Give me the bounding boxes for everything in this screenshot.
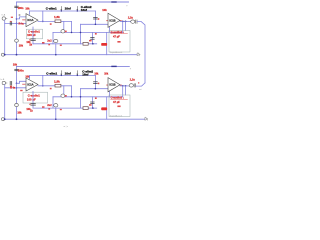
wire mid ground rail y54.7	[4, 54, 137, 56]
value red mark B	[89, 104, 92, 106]
red value blob	[101, 43, 107, 46]
value dot red	[10, 21, 12, 22]
wire drop x71.5 B	[71, 86, 73, 97]
svg-text:IC1B: IC1B	[109, 83, 115, 87]
svg-text:10nf: 10nf	[65, 7, 71, 11]
capacitor C-in plates	[9, 22, 11, 25]
svg-text:1,8k: 1,8k	[54, 15, 60, 19]
node o1 B	[122, 85, 124, 87]
resistor R-mid	[55, 20, 61, 23]
value red mark	[89, 40, 92, 42]
wire slim2 cap riser x95.4	[94, 11, 96, 24]
ground arrow mark	[137, 53, 140, 56]
svg-text:2u2: 2u2	[47, 104, 52, 107]
value mark red	[11, 17, 13, 18]
capacitor C-slim2 plates B	[94, 81, 98, 83]
wire connector ground drop B	[4, 85, 6, 120]
wire drop x55.8 to rail B	[55, 108, 57, 119]
pointer arrow C-slim2 B	[76, 71, 78, 75]
wire cap drop x33	[32, 27, 34, 44]
node bias2 B	[16, 87, 18, 89]
wire drop x63.8	[63, 21, 65, 32]
resistor ellipse on bias chain	[15, 39, 19, 42]
node bias2	[16, 23, 18, 25]
node out1	[42, 21, 44, 23]
wire connector ground drop x4.7	[4, 20, 6, 55]
node low92 B	[92, 107, 94, 109]
wire to output join B	[136, 83, 145, 86]
wire feedback mid y32.4	[53, 31, 123, 33]
wire cap drop x33 B	[32, 91, 34, 108]
wire top supply rail B	[17, 65, 130, 67]
svg-text:In B: In B	[1, 79, 5, 81]
box label C-audio2	[109, 31, 130, 53]
op-amp IC1A	[26, 14, 38, 27]
wire left drop x53 B	[52, 97, 54, 108]
wire slim2 cap riser x95.4 B	[94, 75, 96, 88]
node fb71	[71, 32, 73, 34]
red value blob B	[101, 107, 107, 110]
node arrow2	[77, 10, 78, 11]
resistor R-mid B	[55, 84, 61, 87]
wire input net y87.8	[5, 87, 26, 89]
svg-text:100n: 100n	[18, 68, 24, 72]
capacitor plates riser B	[91, 101, 95, 103]
pin mark	[19, 14, 21, 16]
wire left drop x53	[52, 32, 54, 43]
wire drop x125.5 B	[125, 86, 127, 95]
svg-text:10k: 10k	[17, 112, 22, 115]
wire lower net y42.3	[33, 43, 97, 45]
capacitor C-byp plates	[15, 5, 19, 7]
node arrow1	[61, 10, 62, 11]
svg-text:Kopie/Aussch.: Kopie/Aussch.	[110, 51, 123, 54]
value red tick0	[42, 42, 45, 44]
pin stub red out B	[120, 84, 122, 87]
node rail arrow2 B	[77, 75, 78, 76]
node out1 B	[42, 85, 44, 87]
wire mid ground rail y119.2	[4, 118, 145, 120]
capacitor C-byp plates B	[15, 68, 19, 70]
wire drop x122.7	[122, 21, 124, 32]
wire drop x106.7 to rail B	[106, 97, 108, 119]
wire riser x92.4 B	[91, 97, 93, 108]
value red dot B	[29, 104, 30, 105]
ground arrow mark B	[145, 118, 148, 121]
wire drop x125.5	[125, 21, 127, 30]
value red mark	[65, 31, 67, 33]
wire lower net y106.7	[33, 107, 97, 109]
svg-text:100 µF: 100 µF	[27, 98, 36, 102]
wire IC2B output	[120, 85, 129, 87]
value red tick	[50, 23, 52, 25]
pin stub red B	[22, 83, 25, 86]
wire IC2B input y88.7	[81, 88, 109, 90]
svg-text:C-audio2 ↓: C-audio2 ↓	[111, 96, 125, 100]
wire vertical bias x16.5 B	[16, 66, 18, 119]
value red mark B	[10, 86, 12, 87]
capacitor C-audio1 plates	[31, 38, 36, 40]
wire feedback top y75.4	[30, 74, 96, 76]
svg-text:C-audio2 ↓: C-audio2 ↓	[111, 30, 125, 34]
wire drop x122.7 B	[122, 86, 124, 97]
svg-text:47 µF: 47 µF	[113, 100, 120, 104]
capacitor ellipse on node	[61, 30, 65, 33]
svg-text:10k: 10k	[19, 45, 24, 48]
wire noninv jog	[17, 17, 27, 19]
wire drop x106.7 to rail	[106, 32, 108, 54]
svg-text:2,2u: 2,2u	[130, 78, 135, 81]
svg-text:C-slim1: C-slim1	[46, 71, 57, 75]
wire IC1A output y21.4	[38, 20, 72, 22]
pin stub red out	[120, 19, 122, 22]
node o1	[122, 21, 124, 23]
node gnd-55	[55, 54, 57, 56]
resistor ellipse bias B	[15, 103, 19, 106]
wire feedback stub B	[29, 75, 31, 78]
svg-text:IC1A: IC1A	[27, 82, 33, 86]
node rail arrow1 B	[61, 75, 62, 76]
value red tick2 B	[48, 108, 50, 109]
pointer arrow C-slim1	[60, 6, 62, 10]
red dot near fb B	[95, 97, 97, 99]
svg-text:10k: 10k	[13, 64, 18, 67]
svg-text:IC1A: IC1A	[27, 18, 33, 22]
node gnd-16	[16, 54, 18, 56]
capacitor C-in plates B	[9, 81, 11, 85]
pin stub red	[106, 19, 109, 22]
box label C-audio2 B	[109, 95, 130, 117]
wire to output drop	[138, 21, 146, 83]
svg-text:10k: 10k	[25, 8, 30, 11]
value red dot	[98, 18, 100, 20]
wire feedback stub	[29, 11, 31, 14]
node o2 B	[125, 85, 127, 87]
value red tick in B	[20, 90, 22, 91]
node fb80 B	[80, 96, 82, 98]
wire input net y23.4	[5, 22, 26, 24]
svg-text:16nf: 16nf	[81, 8, 87, 12]
connector IN-A	[2, 17, 5, 20]
wire riser minus x109.5 B	[109, 91, 111, 97]
svg-text:100 µF: 100 µF	[27, 33, 36, 37]
red dot near fb	[95, 33, 97, 35]
wire IC1B input y24.3	[81, 23, 109, 25]
value red tick0 B	[42, 106, 45, 108]
svg-text:10nf: 10nf	[65, 72, 71, 76]
capacitor C-out ellipse B	[129, 84, 133, 87]
node gnd-16 B	[16, 118, 18, 120]
wire top supply rail	[17, 1, 129, 3]
wire riser x80.5 B	[80, 89, 82, 108]
node bias1 B	[16, 83, 18, 85]
wire riser minus x109.5	[109, 26, 111, 32]
svg-text:C-slim1: C-slim1	[46, 7, 57, 11]
svg-text:1,8k: 1,8k	[54, 80, 60, 84]
wire drop x55.8 to rail	[55, 44, 57, 55]
wire riser x80.5	[80, 24, 82, 44]
value red tick2	[48, 44, 50, 45]
capacitor C-audio1 plates B	[31, 102, 36, 104]
svg-text:R-la: R-la	[19, 21, 25, 25]
wire IC2A output y85.8	[38, 85, 72, 87]
red small cap mark B	[117, 106, 120, 108]
wire vertical bias x16.5	[16, 2, 18, 55]
svg-text:IC1B: IC1B	[109, 18, 115, 22]
wire feedback drop x42.8	[42, 11, 44, 21]
capacitor ellipse lower	[54, 39, 58, 42]
node gnd-55 B	[55, 118, 57, 120]
capacitor C-out ellipse	[131, 20, 135, 23]
op-amp IC1B	[108, 13, 120, 27]
resistor R-low B	[83, 107, 88, 110]
capacitor plates on riser	[91, 37, 95, 39]
wire feedback mid y96.8	[53, 96, 123, 98]
node fb80	[80, 32, 82, 34]
resistor R-low	[83, 42, 88, 45]
box label C-audio1	[26, 29, 42, 39]
wire drop x63.8 B	[63, 86, 65, 97]
svg-text:10k: 10k	[102, 8, 107, 12]
value red mark B	[65, 95, 67, 97]
op-amp IC2A	[26, 78, 38, 91]
red small cap mark	[117, 41, 120, 43]
svg-text:47 µF: 47 µF	[113, 35, 120, 39]
pointer arrow C-slim2	[76, 6, 78, 10]
pin stub red B	[106, 84, 109, 87]
pointer arrow C-slim1 B	[60, 71, 62, 75]
value red right	[60, 45, 62, 46]
wire IC1B output	[120, 20, 131, 22]
svg-text:100n: 100n	[18, 6, 24, 10]
ferrite tick on rail	[112, 1, 116, 3]
node in2 B	[95, 88, 97, 90]
capacitor ellipse lower B	[54, 104, 58, 107]
node o2	[125, 21, 127, 23]
op-amp IC2B	[108, 78, 120, 92]
terminal gnd-in circle B	[1, 118, 4, 121]
wire riser x92.4	[91, 32, 93, 43]
connector IN-B	[2, 81, 5, 84]
value red right B	[60, 109, 62, 110]
svg-text:R-la: R-la	[10, 85, 16, 89]
node gnd-in	[4, 54, 6, 56]
svg-text:2u2: 2u2	[47, 40, 52, 43]
wire feedback drop x42.8 B	[42, 75, 44, 85]
wire drop x71.5	[71, 21, 73, 32]
ferrite tick on rail B	[112, 65, 116, 67]
node in2	[95, 24, 97, 26]
value red dot	[29, 39, 30, 40]
svg-text:16nf: 16nf	[82, 72, 88, 76]
capacitor ellipse node B	[61, 94, 65, 97]
value red dot B	[98, 83, 100, 85]
box label C-audio1 B	[23, 92, 48, 103]
node low92	[92, 43, 94, 45]
svg-text:2,2u: 2,2u	[128, 17, 133, 20]
terminal gnd-in circle	[1, 53, 4, 56]
node bias1	[16, 18, 18, 20]
value red tick B	[50, 88, 52, 90]
node gnd-in B	[4, 118, 6, 120]
svg-text:In A: In A	[2, 14, 6, 17]
svg-text:10k: 10k	[94, 72, 99, 75]
svg-text:Kopie/Aussch.: Kopie/Aussch.	[110, 114, 123, 117]
node fb71 B	[71, 96, 73, 98]
pin stub red	[22, 18, 25, 21]
red tick B	[138, 82, 139, 83]
wire noninv jog B	[17, 81, 27, 83]
svg-text:10k: 10k	[104, 73, 109, 76]
capacitor C-slim2 plates	[94, 16, 98, 18]
wire feedback top y11	[30, 10, 96, 12]
